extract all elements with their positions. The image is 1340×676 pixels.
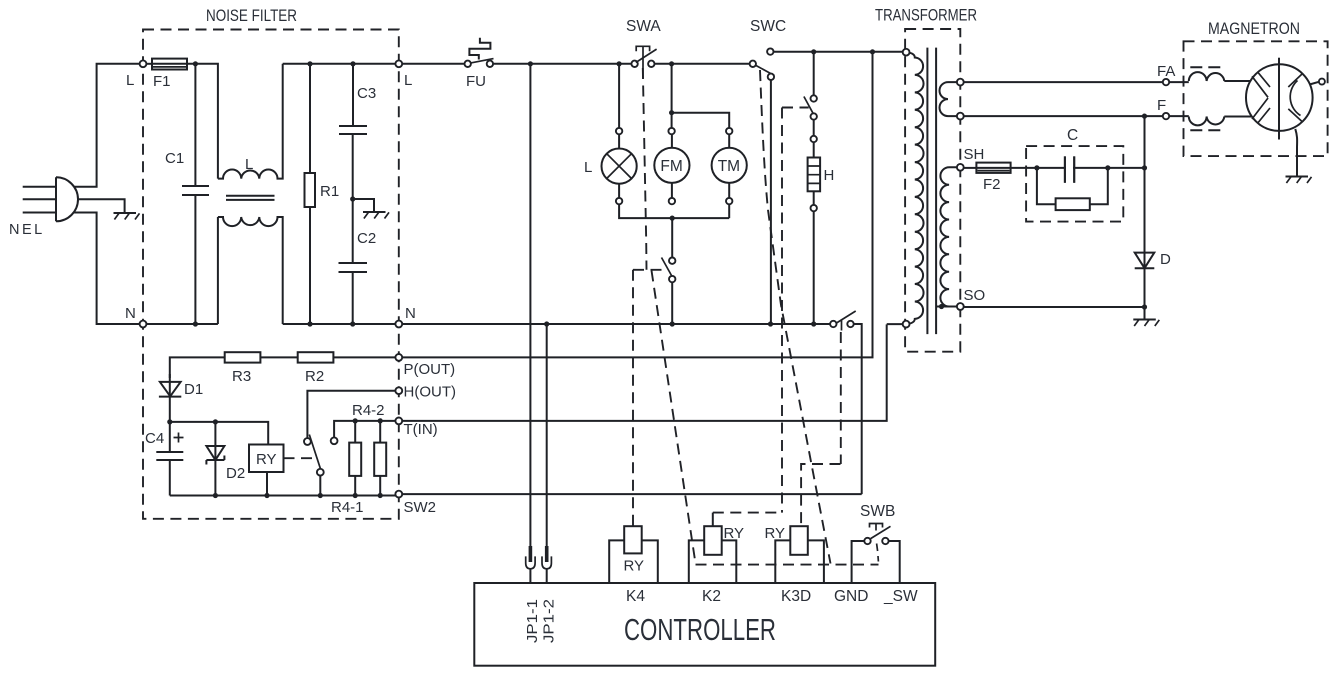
svg-text:R4-2: R4-2 bbox=[352, 402, 385, 419]
wire SWC lower to N row bbox=[770, 80, 772, 324]
svg-text:D1: D1 bbox=[184, 381, 203, 398]
motor FM bbox=[654, 134, 689, 198]
wire JP1-2 vertical bbox=[546, 324, 548, 546]
dashed link rail to K4 bbox=[632, 270, 634, 526]
junction JP1-2 top bbox=[544, 321, 549, 326]
svg-text:K3D: K3D bbox=[781, 588, 811, 605]
resistor C bleeder bbox=[1037, 168, 1108, 210]
junction H N bbox=[811, 321, 816, 326]
svg-text:SWB: SWB bbox=[860, 503, 895, 520]
svg-text:T(IN): T(IN) bbox=[404, 421, 438, 438]
dashed elbow to K3D bbox=[801, 464, 840, 526]
transformer filament winding bbox=[940, 82, 961, 116]
AC plug P1 bbox=[23, 177, 78, 221]
junction HV core bbox=[939, 304, 944, 309]
wire F row bbox=[964, 115, 1163, 117]
wire FA row bbox=[964, 81, 1163, 83]
svg-text:F2: F2 bbox=[983, 176, 1001, 193]
dashed diagonal door to K2 bbox=[652, 271, 696, 564]
wire FU to SWA bbox=[493, 63, 631, 65]
dashed link SWA down bbox=[643, 68, 647, 270]
wire SWC upper to transformer bbox=[774, 51, 903, 53]
lamp L bbox=[602, 134, 637, 198]
junction F to HV riser bbox=[1142, 114, 1147, 119]
svg-text:RY: RY bbox=[724, 525, 745, 542]
junction R4a top bbox=[353, 418, 358, 423]
wire HV riser bbox=[1144, 116, 1146, 307]
node H(OUT) bbox=[395, 387, 402, 394]
svg-text:R3: R3 bbox=[232, 368, 251, 385]
wire HV bottom to SO bbox=[936, 306, 960, 308]
relay K4 coil bbox=[624, 526, 642, 553]
magnetron right vanes bbox=[1288, 74, 1302, 122]
junction D2 top bbox=[213, 419, 218, 424]
svg-text:FU: FU bbox=[466, 73, 486, 90]
choke FA bbox=[1189, 67, 1225, 81]
svg-text:TM: TM bbox=[718, 158, 740, 175]
junction C1 top bbox=[193, 61, 198, 66]
wire F2 to C box bbox=[1011, 167, 1145, 169]
svg-text:SW2: SW2 bbox=[404, 499, 437, 516]
terminal primary top bbox=[903, 49, 910, 56]
svg-text:K4: K4 bbox=[626, 588, 645, 605]
motor TM bbox=[712, 128, 747, 218]
magnetron left vanes bbox=[1252, 72, 1270, 124]
node N left bbox=[140, 321, 147, 328]
junction SWC N bbox=[768, 321, 773, 326]
resistor R4-2a bbox=[349, 421, 361, 496]
magnetron cathode line bbox=[1278, 58, 1280, 140]
svg-text:SH: SH bbox=[964, 146, 985, 163]
relay coil RY box bbox=[249, 445, 284, 473]
svg-text:CONTROLLER: CONTROLLER bbox=[624, 612, 776, 647]
junction H branch top bbox=[811, 49, 816, 54]
wire L row right segment bbox=[283, 63, 396, 65]
junction C4 top bbox=[167, 419, 172, 424]
wire RY to bottom bbox=[266, 472, 268, 496]
connector JP1-2 bbox=[542, 546, 551, 583]
svg-text:JP1-1: JP1-1 bbox=[524, 599, 541, 643]
dashed link K2 coil to H link bbox=[713, 512, 782, 514]
svg-text:D2: D2 bbox=[226, 465, 245, 482]
junction RY bottom bbox=[264, 493, 269, 498]
wire SW2 row right bbox=[402, 493, 862, 495]
switch interlock sense on N row bbox=[830, 311, 856, 331]
FM branch wire bbox=[671, 64, 673, 113]
terminal below H bbox=[811, 205, 817, 211]
capacitor C dashed box bbox=[1026, 146, 1123, 222]
junction R4a bottom bbox=[353, 493, 358, 498]
svg-text:TRANSFORMER: TRANSFORMER bbox=[875, 7, 977, 25]
junction contact bottom bbox=[318, 493, 323, 498]
svg-text:F1: F1 bbox=[153, 73, 171, 90]
wire choke F to tube bbox=[1224, 116, 1251, 118]
junction C3 top bbox=[350, 61, 355, 66]
ground SO bbox=[1133, 320, 1159, 327]
ground C2C3 bbox=[363, 212, 389, 219]
wire D1 to RY top bbox=[170, 422, 268, 445]
plus sign C4 bbox=[174, 433, 184, 443]
wire P row to riser bbox=[402, 52, 872, 358]
terminal primary bottom bbox=[903, 321, 910, 328]
junction FM split bbox=[669, 110, 674, 115]
transformer HV winding bbox=[940, 167, 960, 306]
svg-text:D: D bbox=[1160, 251, 1171, 268]
node P(OUT) bbox=[395, 354, 402, 361]
wire door switch to N row bbox=[671, 282, 673, 324]
svg-text:C2: C2 bbox=[357, 230, 376, 247]
wire tube to output terminal bbox=[1310, 82, 1319, 85]
junction HV node bbox=[1142, 165, 1147, 170]
wire plug earth bbox=[78, 199, 125, 213]
capacitor C3 bbox=[339, 64, 367, 199]
dashed rail door1 bbox=[633, 269, 667, 271]
terminal F winding bbox=[957, 113, 964, 120]
junction FM top bbox=[669, 61, 674, 66]
wire L row filter to FU bbox=[402, 63, 464, 65]
node L left bbox=[140, 60, 147, 67]
resistor R4-2b bbox=[374, 421, 386, 496]
magnetron antenna dome bbox=[1290, 81, 1300, 116]
svg-text:K2: K2 bbox=[702, 588, 721, 605]
wire N row right of filter bbox=[402, 323, 830, 325]
magnetron tube circle bbox=[1246, 64, 1313, 131]
transformer dashed box bbox=[905, 29, 960, 352]
inductor L core bbox=[226, 196, 275, 200]
wire SWA to SWC bbox=[655, 63, 750, 65]
wire SW2 row inside box bbox=[170, 495, 396, 497]
wire choke left to N row bbox=[217, 217, 219, 324]
wire H to terminal bbox=[813, 191, 815, 205]
svg-text:RY: RY bbox=[624, 558, 645, 575]
junction C1 bottom bbox=[193, 321, 198, 326]
svg-text:RY: RY bbox=[256, 451, 277, 468]
diode D2 zener bbox=[206, 422, 224, 496]
junction R1 top bbox=[307, 61, 312, 66]
wire choke FA to tube bbox=[1224, 80, 1251, 82]
svg-text:L: L bbox=[404, 72, 412, 89]
svg-text:NEL: NEL bbox=[9, 222, 45, 238]
svg-text:H: H bbox=[824, 167, 835, 184]
junction SO ground bbox=[1142, 304, 1147, 309]
wire L row to choke bbox=[187, 64, 218, 179]
relay K2 coil bbox=[704, 526, 722, 555]
wire JP1-1 vertical bbox=[529, 64, 531, 546]
svg-text:FM: FM bbox=[660, 158, 682, 175]
wire L row left bbox=[140, 63, 152, 65]
lamp branch wire bbox=[618, 64, 620, 128]
node N right bbox=[395, 321, 402, 328]
wire FM down bbox=[671, 113, 673, 128]
svg-text:C4: C4 bbox=[145, 430, 164, 447]
svg-text:SWC: SWC bbox=[750, 18, 786, 35]
junction C right bbox=[1105, 165, 1110, 170]
terminal FM top bbox=[668, 128, 674, 134]
junction R4b bottom bbox=[378, 493, 383, 498]
wire to ground SO bbox=[1144, 307, 1146, 320]
svg-text:C: C bbox=[1067, 127, 1078, 144]
magnetron dashed box bbox=[1184, 41, 1328, 156]
resistor R3 bbox=[225, 352, 261, 362]
wire split to TM bbox=[672, 113, 730, 128]
relay K4 contact box bbox=[609, 540, 658, 583]
wire F into box bbox=[1169, 115, 1189, 117]
svg-text:P(OUT): P(OUT) bbox=[404, 361, 456, 378]
inductor L choke bottom winding bbox=[218, 217, 283, 324]
terminal lamp bottom bbox=[616, 198, 622, 204]
svg-text:L: L bbox=[245, 156, 253, 173]
dashed link RY to contact bbox=[284, 457, 317, 459]
junction C2 C3 ground bbox=[350, 196, 355, 201]
wire lamp to bus bbox=[619, 204, 729, 218]
wire T row to thermostat bbox=[334, 421, 395, 438]
diode D1 bbox=[159, 374, 181, 422]
svg-text:GND: GND bbox=[834, 588, 868, 605]
svg-text:H(OUT): H(OUT) bbox=[404, 384, 457, 401]
wire H branch upper bbox=[813, 52, 815, 95]
svg-text:MAGNETRON: MAGNETRON bbox=[1208, 20, 1300, 38]
junction lamp top bbox=[617, 61, 622, 66]
junction D2 bottom bbox=[213, 493, 218, 498]
wire FA into box bbox=[1169, 81, 1189, 83]
dashed link H switch to K2 bbox=[781, 108, 783, 513]
terminal FA winding bbox=[957, 79, 964, 86]
wire primary bottom to T riser bbox=[887, 323, 903, 325]
svg-text:N: N bbox=[405, 305, 416, 322]
switch SWA bbox=[631, 46, 656, 78]
wire N row inside filter bbox=[146, 323, 395, 325]
wire K2 coil stub bbox=[712, 513, 714, 527]
svg-text:SWA: SWA bbox=[626, 18, 661, 35]
svg-text:F: F bbox=[1157, 97, 1166, 114]
wire to ground C2C3 bbox=[353, 199, 374, 212]
wire T row to transformer riser bbox=[402, 324, 887, 421]
diode D bbox=[1135, 253, 1155, 269]
wire N switch to SW2 riser bbox=[854, 324, 862, 494]
svg-text:FA: FA bbox=[1157, 63, 1175, 80]
svg-text:R2: R2 bbox=[305, 368, 324, 385]
svg-text:SO: SO bbox=[964, 287, 986, 304]
svg-text:RY: RY bbox=[765, 525, 786, 542]
junction bus to door switch bbox=[670, 216, 675, 221]
terminal F bbox=[1163, 113, 1169, 119]
svg-text:C1: C1 bbox=[165, 150, 184, 167]
svg-text:C3: C3 bbox=[357, 85, 376, 102]
wire SO row bbox=[964, 306, 1145, 308]
dashed door rail bottom bbox=[696, 564, 879, 566]
capacitor C1 bbox=[182, 64, 209, 324]
svg-text:L: L bbox=[126, 72, 134, 89]
heater H bbox=[808, 158, 821, 192]
junction C left bbox=[1034, 165, 1039, 170]
transformer primary winding bbox=[906, 52, 923, 324]
svg-text:R1: R1 bbox=[320, 183, 339, 200]
terminal SH bbox=[957, 164, 964, 171]
terminal FA bbox=[1163, 79, 1169, 85]
wire H(OUT) to relay contact bbox=[307, 391, 395, 438]
junction R1 bottom bbox=[307, 321, 312, 326]
terminal lamp top bbox=[616, 128, 622, 134]
wire anode to ground bbox=[1295, 129, 1297, 177]
junction C2 bottom bbox=[350, 321, 355, 326]
dashed link SWC bbox=[760, 70, 831, 564]
ground magnetron bbox=[1286, 177, 1312, 184]
resistor R1 bbox=[305, 64, 316, 324]
transformer core bbox=[927, 48, 936, 335]
wire to heater H bbox=[813, 142, 815, 157]
svg-text:R4-1: R4-1 bbox=[331, 499, 364, 516]
switch SWB bbox=[852, 524, 900, 584]
wire plug N to noise filter bbox=[74, 213, 141, 325]
svg-text:NOISE FILTER: NOISE FILTER bbox=[206, 7, 297, 25]
connector JP1-1 bbox=[526, 546, 535, 583]
dashed rail H switch bbox=[782, 107, 809, 109]
node SW2 bbox=[395, 491, 402, 498]
junction door N bbox=[670, 321, 675, 326]
fuse F2 bbox=[976, 163, 1010, 173]
relay contact SW bbox=[304, 435, 324, 496]
node L right bbox=[395, 60, 402, 67]
wire P row left branch bbox=[170, 357, 396, 378]
capacitor C2 bbox=[339, 199, 368, 324]
wire H to N row bbox=[813, 211, 815, 324]
terminal magnetron output bbox=[1319, 79, 1325, 85]
dashed link N switch to K3D elbow bbox=[840, 332, 842, 464]
choke F bbox=[1189, 117, 1225, 131]
svg-text:JP1-2: JP1-2 bbox=[541, 599, 558, 643]
junction R4b top bbox=[378, 418, 383, 423]
switch SWC bbox=[750, 48, 775, 80]
node T(IN) bbox=[395, 418, 402, 425]
junction JP1-1 top bbox=[528, 61, 533, 66]
terminal FM bottom bbox=[669, 198, 675, 204]
relay K3D contact box bbox=[775, 540, 824, 583]
wire bus to door switch bbox=[671, 218, 673, 257]
wire plug L to noise filter bbox=[74, 64, 141, 187]
svg-text:N: N bbox=[125, 305, 136, 322]
capacitor C4 bbox=[156, 422, 183, 496]
controller box bbox=[474, 583, 935, 666]
svg-text:_SW: _SW bbox=[883, 588, 918, 605]
terminal thermostat open bbox=[331, 437, 338, 444]
capacitor C plates bbox=[1065, 156, 1074, 183]
ground plug bbox=[114, 213, 140, 220]
terminal SO bbox=[957, 303, 964, 310]
resistor R2 bbox=[298, 352, 334, 362]
junction P riser top bbox=[870, 49, 875, 54]
relay K2 contact box bbox=[689, 540, 737, 583]
noise filter dashed box bbox=[143, 30, 399, 519]
svg-text:L: L bbox=[584, 159, 592, 176]
door switch D-SW1 bbox=[662, 258, 676, 283]
thermal cutout FU bbox=[465, 38, 494, 67]
inductor L choke top winding bbox=[218, 64, 283, 179]
wire SH stub bbox=[964, 167, 977, 169]
switch H thermal bbox=[804, 95, 817, 142]
relay K3D coil bbox=[790, 526, 808, 555]
fuse F1 bbox=[152, 59, 187, 70]
